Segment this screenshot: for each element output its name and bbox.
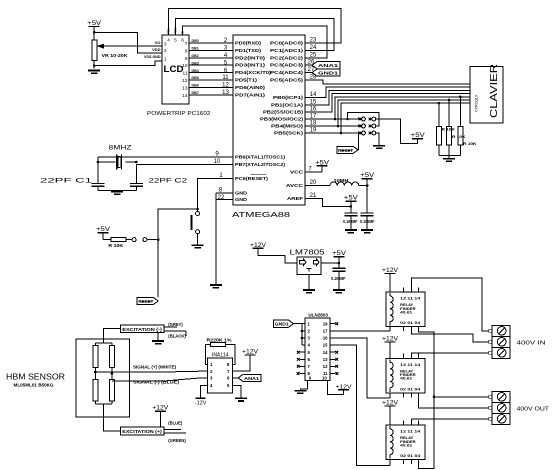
svg-text:6: 6 (181, 38, 184, 44)
wire excitation- stem (104, 329, 121, 343)
svg-text:POWERTRIP PC1602: POWERTRIP PC1602 (147, 111, 211, 117)
wire pin6 (232, 377, 238, 379)
svg-text:LCD: LCD (164, 63, 184, 74)
svg-text:PB2(SS/OC1B): PB2(SS/OC1B) (263, 110, 304, 115)
-12V power symbol (196, 397, 206, 399)
svg-text:20: 20 (310, 180, 317, 186)
wire PB5 riser to bus (341, 103, 470, 133)
wire LCD DB2 to PD2 (189, 57, 233, 59)
wire bridge left mid (94, 368, 96, 380)
wire LCD DB7 to PD7 (189, 94, 233, 96)
svg-text:0.100MF: 0.100MF (331, 276, 346, 281)
wire K2 pin11 to 400V IN 3 (412, 352, 489, 355)
svg-text:+12V: +12V (382, 400, 399, 407)
wire signal- (blue) (112, 378, 208, 381)
bridge resistor R5 (93, 346, 98, 368)
svg-text:14: 14 (182, 93, 188, 99)
svg-text:40.61: 40.61 (400, 309, 413, 314)
ground (crystal) (111, 191, 123, 193)
svg-text:+5V: +5V (87, 20, 102, 27)
capacitor C2 22PF (130, 183, 143, 185)
wire header GND (376, 133, 380, 145)
ground (regulator) (303, 289, 315, 291)
svg-text:PB5(SCK): PB5(SCK) (274, 131, 304, 136)
+12V power symbol (INA114) (245, 354, 256, 356)
wire AREF (305, 199, 351, 207)
wire (305, 72, 312, 74)
wire K1 pin01 to 400V IN 2 (412, 331, 489, 342)
svg-text:PB6(XTAL1/TOSC1): PB6(XTAL1/TOSC1) (235, 155, 286, 160)
bridge resistor R6 (110, 346, 115, 368)
wire LCD DB0 to PD0 (189, 42, 233, 44)
svg-text:(BLACK): (BLACK) (168, 333, 186, 338)
wire xtal caps to ground (97, 186, 99, 190)
wire regulator output (321, 262, 339, 264)
svg-text:10: 10 (322, 375, 327, 380)
wire LCD DB6 to PD6 (189, 86, 233, 88)
svg-text:10: 10 (182, 63, 188, 69)
wire GND pins (216, 192, 233, 194)
wire K3 coil bottom (389, 460, 391, 466)
svg-text:SIGNAL (-) (BLUE): SIGNAL (-) (BLUE) (133, 380, 180, 385)
resistor R3 10K (keypad pulldown) (448, 99, 451, 102)
relay K1 FINDER 40.61 (386, 292, 425, 327)
wire ULN COM pin10 to +12V (328, 381, 344, 395)
wire input bus (294, 323, 303, 325)
+5V power symbol (contrast pot) (89, 26, 100, 28)
svg-text:+5V: +5V (332, 250, 347, 257)
svg-text:+12V: +12V (382, 267, 399, 274)
connector ISP header right pins (369, 118, 372, 121)
wire reset branch (158, 209, 197, 297)
svg-text:15: 15 (323, 343, 328, 348)
svg-text:11: 11 (183, 71, 188, 77)
svg-text:DB1: DB1 (192, 47, 199, 51)
wire AVCC cap (366, 186, 368, 213)
wire PB4 riser to bus (338, 100, 470, 126)
wire reset net (198, 179, 233, 212)
relay K3 FINDER 40.61 (386, 425, 425, 460)
svg-text:PB3(MOSI/OC2): PB3(MOSI/OC2) (260, 117, 304, 122)
wire LCD DB5 to PD5 (189, 79, 233, 81)
svg-text:PD0(RXD): PD0(RXD) (235, 41, 262, 46)
bridge resistor R7 (93, 379, 98, 401)
svg-text:12 11 14: 12 11 14 (400, 430, 421, 434)
svg-text:GND1: GND1 (275, 322, 290, 327)
svg-text:PB0(ICP1): PB0(ICP1) (273, 95, 304, 100)
svg-text:GND1: GND1 (318, 71, 339, 76)
svg-text:1: 1 (164, 56, 167, 62)
svg-text:R 10K: R 10K (108, 243, 123, 248)
capacitor C3 0.100MF (350, 207, 352, 214)
svg-text:26: 26 (308, 60, 315, 66)
LCD module box (162, 35, 189, 104)
svg-text:SIGNAL (+) (WHITE): SIGNAL (+) (WHITE) (133, 365, 177, 370)
wire pulldown commons (439, 154, 460, 156)
connector CLAVIER (keypad) (470, 67, 503, 123)
wire K3 pin11 to 400V OUT 3 (411, 419, 413, 421)
wire PB16 to keypad bus (305, 94, 470, 113)
wire LCD DB1 to PD1 (189, 49, 233, 51)
svg-text:27: 27 (308, 67, 315, 73)
junction +5V branch (93, 31, 96, 34)
svg-text:R 10K: R 10K (442, 127, 456, 132)
+12V power symbol (excitation) (155, 410, 166, 412)
svg-text:10MH: 10MH (334, 178, 349, 183)
wire (359, 185, 367, 187)
svg-text:02 01 04: 02 01 04 (400, 388, 421, 392)
svg-text:25: 25 (310, 52, 317, 58)
wire K1 pin11 to 400V IN 1 (412, 278, 489, 331)
svg-text:5: 5 (174, 38, 177, 44)
bus wire LCD pin5 to PC1 (176, 19, 335, 51)
wire (258, 248, 297, 263)
svg-text:13: 13 (222, 90, 229, 96)
svg-text:22PF C1: 22PF C1 (40, 177, 93, 184)
wire bridge top rail (95, 342, 112, 344)
svg-text:PC6(RESET): PC6(RESET) (235, 176, 269, 181)
wire VCC (305, 171, 322, 173)
svg-text:R220K 1%: R220K 1% (207, 337, 232, 342)
+5V power symbol (regulator output) (334, 256, 345, 258)
capacitor C4 0.100MF (361, 212, 374, 214)
svg-text:PD3(INT1): PD3(INT1) (235, 63, 266, 68)
wire reset to header (357, 149, 360, 151)
wire PB4 (MISO) row (305, 125, 360, 127)
svg-text:AVCC: AVCC (286, 183, 303, 188)
svg-text:DB6: DB6 (192, 84, 199, 88)
wire excitation- ground (157, 333, 159, 341)
svg-text:PB7(XTAL2/TOSC2): PB7(XTAL2/TOSC2) (235, 162, 286, 167)
wire +5V to LCD VDD (94, 32, 162, 53)
svg-text:DB0: DB0 (192, 39, 199, 43)
ground (C4) (361, 229, 373, 231)
svg-text:DB3: DB3 (192, 61, 199, 65)
svg-text:R 10K: R 10K (452, 134, 466, 139)
svg-text:22PF C2: 22PF C2 (149, 177, 188, 184)
svg-text:+12V: +12V (382, 335, 399, 342)
wire (97, 157, 99, 184)
flag GND1 (driver input) (274, 320, 294, 327)
capacitor C5 0.100MF (338, 263, 340, 268)
+12V power symbol (K2 coil) (385, 341, 396, 343)
svg-text:ANA1: ANA1 (318, 63, 339, 68)
pin stub (unused output) (330, 358, 336, 360)
svg-text:ULN2803: ULN2803 (308, 312, 328, 317)
svg-text:400V IN: 400V IN (517, 340, 546, 346)
ground (C5) (333, 289, 345, 291)
wire regulator ground (308, 275, 310, 290)
svg-text:14: 14 (310, 92, 317, 98)
resistor R1 10K (reset pull-up) (111, 238, 126, 242)
svg-text:HBM SENSOR: HBM SENSOR (6, 372, 65, 381)
svg-text:+5V: +5V (344, 195, 359, 202)
svg-text:17: 17 (323, 329, 328, 334)
svg-text:(GREY): (GREY) (168, 322, 183, 327)
svg-text:40.61: 40.61 (400, 376, 413, 381)
wire K2 pin04 to 400V OUT 2 (419, 397, 489, 407)
svg-text:400V OUT: 400V OUT (517, 406, 550, 412)
wire K1 pin04 / K3 pin04 to 400V OUT 1 (419, 331, 434, 468)
svg-text:DB5: DB5 (192, 76, 199, 80)
svg-text:17: 17 (310, 114, 317, 120)
wire bridge bottom rail (95, 403, 112, 405)
svg-text:-12V: -12V (195, 400, 207, 406)
flag ANA1 (ADC input) (312, 62, 340, 69)
svg-text:24: 24 (310, 45, 317, 51)
+5V power symbol (AREF) (345, 200, 356, 202)
svg-text:AREF: AREF (287, 196, 304, 201)
ground (pushbutton) (192, 244, 204, 246)
bridge resistor R8 (110, 379, 115, 401)
wire output 17 to relay K1 coil (330, 330, 390, 332)
flag RESET (bottom) (137, 297, 158, 304)
wire pin7 to +12V (232, 355, 250, 371)
inductor L1 10MH (330, 182, 359, 186)
svg-text:PC1(ADC1): PC1(ADC1) (270, 48, 304, 53)
pin stub (unused output) (330, 351, 336, 353)
svg-text:+12V: +12V (250, 242, 267, 249)
+12V power symbol (K1 coil) (385, 272, 396, 274)
wire (412, 418, 489, 420)
wire (305, 64, 312, 66)
svg-text:CYRCQLX: CYRCQLX (475, 94, 479, 112)
svg-text:8: 8 (185, 48, 188, 54)
wire (389, 342, 391, 358)
flag GND1 (relay control net) (312, 69, 340, 76)
wire (103, 239, 111, 241)
svg-text:PC3(ADC3): PC3(ADC3) (270, 63, 304, 68)
svg-text:4: 4 (167, 38, 170, 44)
svg-text:ANA1: ANA1 (244, 376, 260, 381)
svg-text:VR 10-20K: VR 10-20K (102, 53, 129, 58)
svg-text:PC2(ADC2): PC2(ADC2) (270, 55, 304, 60)
svg-text:13: 13 (182, 85, 188, 91)
pin stub (unused output) (330, 323, 336, 325)
svg-text:7: 7 (185, 41, 188, 47)
wire bridge right mid (111, 368, 113, 380)
ground (C3) (345, 229, 357, 231)
svg-text:R 10K: R 10K (463, 141, 477, 146)
wire (434, 396, 489, 398)
svg-text:02 01 04: 02 01 04 (400, 454, 421, 458)
svg-text:VSS-GND: VSS-GND (144, 54, 161, 59)
wire LCD DB4 to PD4 (189, 72, 233, 74)
svg-text:GND: GND (235, 191, 247, 196)
svg-text:+5V: +5V (96, 226, 111, 233)
svg-text:ML05ML01 B50KG: ML05ML01 B50KG (14, 383, 54, 388)
ground (MCU GND pins) (210, 284, 222, 286)
wire PB3 (MOSI) row (305, 118, 360, 120)
connector ISP header left pins (358, 118, 361, 121)
svg-text:10: 10 (214, 159, 221, 165)
svg-text:LM7805: LM7805 (290, 247, 325, 256)
box EXCITATION (-) (120, 325, 164, 333)
svg-text:PC0(ADC0): PC0(ADC0) (270, 41, 304, 46)
svg-text:EXCITATION (+): EXCITATION (+) (122, 429, 162, 434)
svg-text:EXCITATION (-): EXCITATION (-) (122, 327, 162, 332)
+5V power symbol (reset pull-up) (98, 232, 109, 234)
+5V power symbol (ISP) (412, 138, 423, 140)
bus wire LCD pin6 to PC2 (183, 26, 327, 58)
wire LCD DB3 to PD3 (189, 64, 233, 66)
wiper arrow wire to LCD VO (102, 45, 162, 47)
+5V power symbol (VCC) (317, 165, 328, 167)
svg-text:8MHZ: 8MHZ (109, 144, 132, 151)
svg-text:12: 12 (323, 364, 328, 369)
svg-text:14: 14 (323, 350, 328, 355)
svg-text:PD7(AIN1): PD7(AIN1) (235, 92, 266, 97)
svg-text:16: 16 (310, 107, 317, 113)
flag ANA1 (INA output) (238, 374, 261, 381)
svg-text:19: 19 (310, 128, 317, 134)
svg-text:+5V: +5V (360, 172, 375, 179)
svg-text:13: 13 (323, 357, 328, 362)
svg-text:2: 2 (164, 48, 167, 54)
wire grey (164, 326, 177, 328)
pushbutton S1 (reset) (196, 212, 200, 216)
svg-text:ATMEGA88: ATMEGA88 (232, 210, 290, 219)
svg-text:+12V: +12V (152, 405, 169, 412)
+5V power symbol (AVCC) (362, 178, 373, 180)
ground (excitation-) (152, 340, 164, 342)
svg-text:12: 12 (222, 83, 229, 89)
svg-text:(BLUE): (BLUE) (168, 421, 183, 426)
ground (pot) (88, 70, 100, 72)
pin stub (unused output) (330, 365, 336, 367)
wire pin5 to ground (232, 386, 241, 398)
svg-text:PC5(ADC5): PC5(ADC5) (270, 78, 304, 83)
svg-text:12 11 14: 12 11 14 (400, 363, 421, 367)
wire AVCC (305, 185, 330, 187)
svg-text:12: 12 (182, 78, 188, 84)
wire (93, 27, 95, 41)
svg-text:+5V: +5V (411, 132, 426, 139)
svg-text:12 11 14: 12 11 14 (400, 297, 421, 301)
flag RESET (ISP) (337, 146, 358, 153)
svg-text:PC4(ADC4): PC4(ADC4) (270, 70, 304, 75)
ground (keypad pulldowns) (443, 158, 455, 160)
svg-text:VO: VO (155, 40, 161, 45)
bus wire LCD pin4 to PC0 (168, 9, 341, 44)
resistor R2 10K (keypad pulldown) (438, 102, 441, 105)
wire ULN GND pin9 (300, 381, 307, 391)
wire PB14 to keypad bus (305, 87, 470, 97)
+12V power symbol (K3 coil) (385, 405, 396, 407)
svg-text:11: 11 (222, 75, 229, 81)
svg-text:16: 16 (323, 336, 328, 341)
wire excitation+ stem (104, 404, 121, 431)
svg-text:22: 22 (218, 195, 225, 201)
capacitor C1 22PF (92, 183, 105, 185)
wire pin4 to -12V (201, 386, 208, 398)
pin stub (unused output) (330, 373, 336, 375)
microcontroller U1 ATMEGA88 (233, 35, 305, 205)
wire PC5 to keypad bus (305, 80, 470, 84)
wire K2 coil bottom (389, 393, 391, 398)
svg-text:+12V: +12V (242, 348, 259, 355)
connector J2 400V IN (492, 325, 510, 358)
+12V power symbol (ULN COM) (338, 389, 349, 391)
svg-text:PD5(T1): PD5(T1) (235, 78, 258, 83)
potentiometer VR 10-20K (92, 40, 97, 60)
wire (135, 165, 137, 184)
svg-text:23: 23 (310, 38, 317, 44)
wire PB5 (SCK) row (305, 132, 360, 134)
wire pot bottom / VSS (93, 60, 95, 68)
wire PB15 to keypad bus (305, 90, 470, 104)
svg-text:18: 18 (310, 121, 317, 127)
wire MOSI over-jog to header (348, 112, 380, 126)
svg-text:PB4(MISO): PB4(MISO) (271, 124, 304, 129)
svg-text:PD2(INT0): PD2(INT0) (235, 55, 266, 60)
wire (389, 406, 391, 425)
wire XTAL1 (98, 156, 233, 158)
wire K1 coil bottom (389, 327, 391, 332)
connector J3 400V OUT (492, 391, 510, 424)
wire XTAL2 (136, 164, 233, 166)
wire PB3 riser to bus (335, 97, 470, 119)
sensor outer box (76, 339, 129, 417)
svg-text:PB1(OC1A): PB1(OC1A) (271, 102, 304, 107)
box EXCITATION (+) (120, 427, 164, 435)
svg-text:DB7: DB7 (192, 91, 199, 95)
svg-text:18: 18 (323, 321, 328, 326)
svg-text:02 01 04: 02 01 04 (400, 321, 421, 325)
+12V power symbol (regulator input) (253, 247, 264, 249)
wire output 15 to relay K3 coil (330, 345, 390, 465)
wire (389, 273, 391, 292)
svg-text:PD1(TXD): PD1(TXD) (235, 48, 262, 53)
svg-text:VDD: VDD (152, 47, 161, 52)
ground (ULN2803) (294, 390, 306, 392)
jumper contacts (126, 239, 132, 241)
ground (ISP header) (373, 145, 385, 147)
svg-text:15: 15 (310, 99, 317, 105)
resistor R4 10K (keypad pulldown) (459, 96, 462, 99)
wire output 16 to relay K2 coil (330, 338, 390, 398)
ground (INA114 ref) (235, 397, 247, 399)
wire black (164, 330, 186, 332)
svg-text:VCC: VCC (290, 170, 303, 175)
relay K2 FINDER 40.61 (386, 358, 425, 393)
svg-text:(GREEN): (GREEN) (168, 438, 186, 443)
wire green (164, 432, 186, 434)
wire signal+ (white) (95, 370, 207, 373)
svg-text:CLAVIER: CLAVIER (489, 64, 500, 118)
svg-text:DB4: DB4 (192, 69, 199, 73)
overline on RESET pin name (251, 174, 267, 176)
svg-text:40.61: 40.61 (400, 442, 413, 447)
svg-text:9: 9 (185, 56, 188, 62)
svg-text:PD6(AIN0): PD6(AIN0) (235, 85, 266, 90)
svg-text:21: 21 (310, 193, 317, 199)
svg-text:+5V: +5V (315, 159, 330, 166)
svg-text:DB2: DB2 (192, 54, 199, 58)
svg-text:+12V: +12V (336, 384, 352, 390)
svg-text:GND: GND (235, 197, 247, 202)
wire header VCC to +5V (376, 119, 418, 143)
wire blue (164, 429, 181, 431)
svg-text:PD4(XCK/T0): PD4(XCK/T0) (235, 70, 272, 75)
